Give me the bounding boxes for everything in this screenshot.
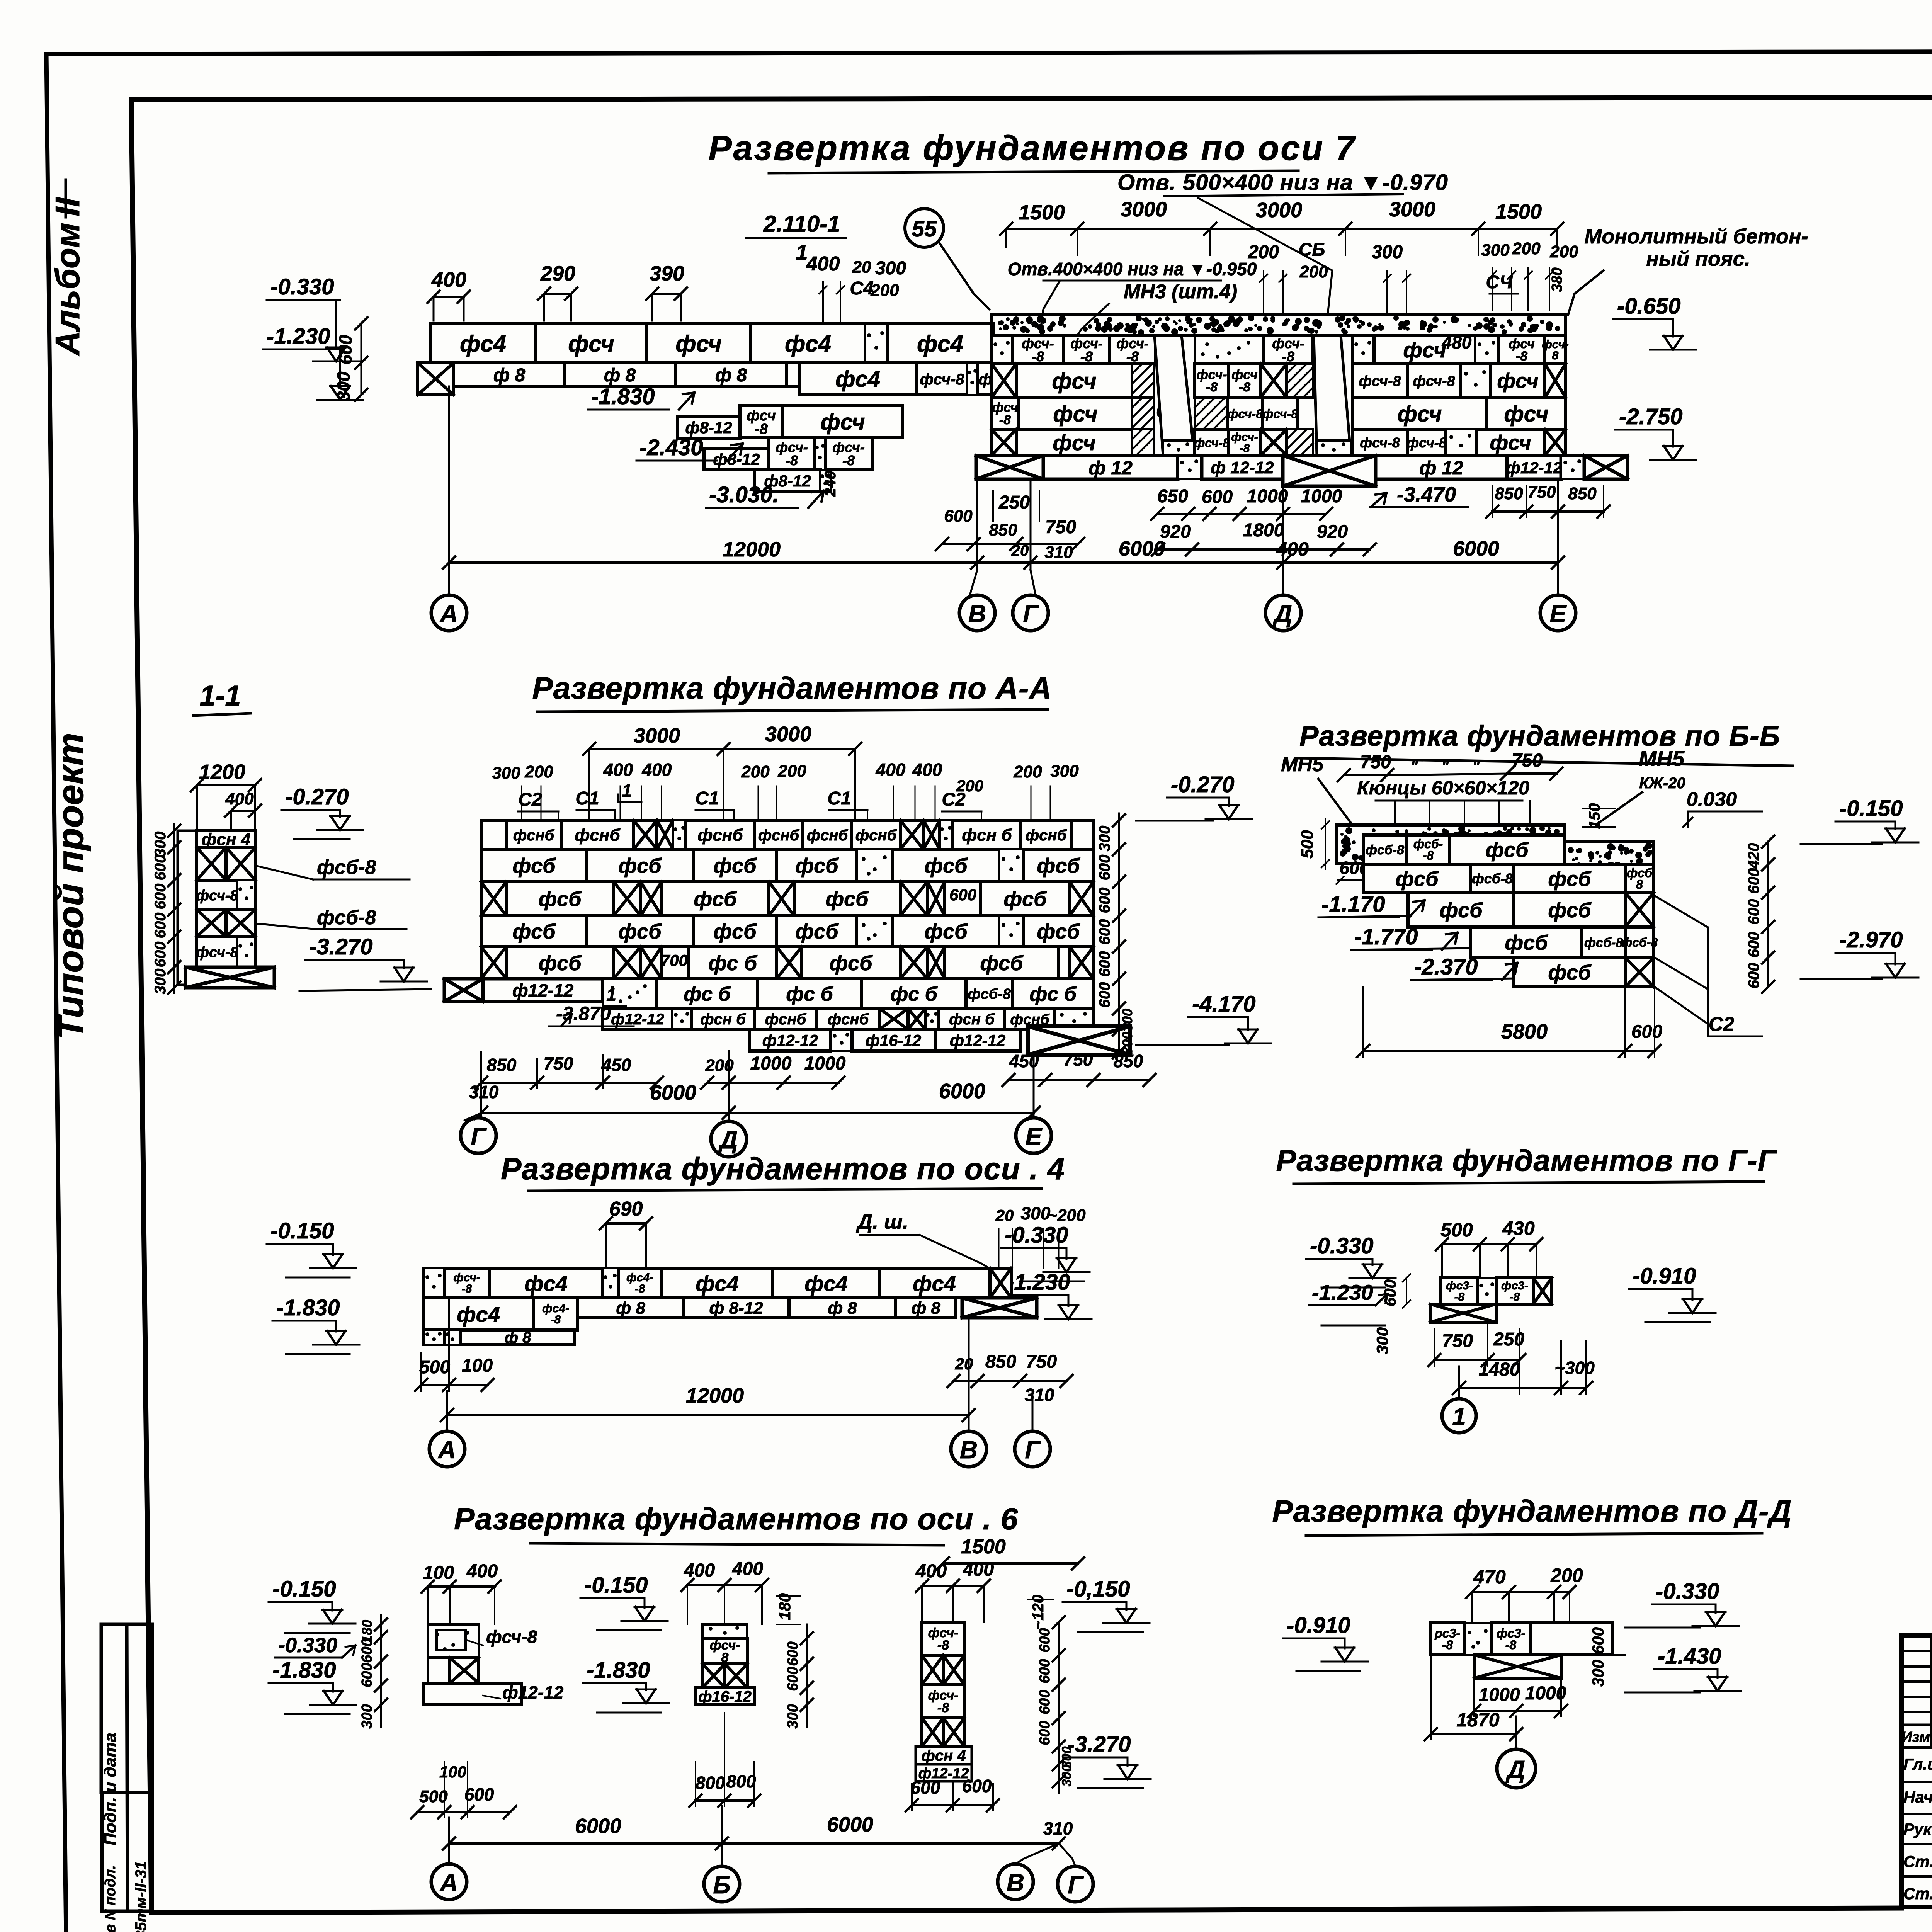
svg-text:850: 850 xyxy=(985,1352,1016,1372)
svg-text:-8: -8 xyxy=(1510,1291,1520,1303)
svg-text:750: 750 xyxy=(1045,517,1076,537)
svg-text:200: 200 xyxy=(1248,242,1279,262)
svg-text:470: 470 xyxy=(1473,1566,1506,1588)
drawing4 right vertical chain 420 600x4 xyxy=(1767,842,1769,987)
svg-text:-8: -8 xyxy=(842,452,855,468)
svg-text:300: 300 xyxy=(1050,762,1079,781)
svg-text:Отв.400×400 низ на ▼-0.950: Отв.400×400 низ на ▼-0.950 xyxy=(1008,259,1257,279)
svg-text:750: 750 xyxy=(1442,1331,1473,1351)
svg-text:Е: Е xyxy=(1550,600,1567,628)
svg-text:-3.470: -3.470 xyxy=(1397,483,1456,506)
svg-text:690: 690 xyxy=(609,1198,643,1220)
svg-text:850: 850 xyxy=(1114,1051,1143,1071)
svg-text:-1.230: -1.230 xyxy=(1007,1270,1070,1295)
svg-text:фсн б: фсн б xyxy=(962,826,1012,845)
svg-text:-0.330: -0.330 xyxy=(278,1634,337,1657)
svg-text:1000: 1000 xyxy=(1301,486,1342,507)
svg-text:200: 200 xyxy=(1299,262,1328,281)
svg-text:200: 200 xyxy=(1512,239,1541,258)
svg-text:А: А xyxy=(437,1436,456,1464)
svg-text:12000: 12000 xyxy=(686,1384,744,1407)
svg-text:фснб: фснб xyxy=(697,826,743,845)
svg-text:фсб: фсб xyxy=(713,854,757,878)
svg-text:-0.330: -0.330 xyxy=(1656,1579,1719,1604)
svg-text:8: 8 xyxy=(1636,878,1643,891)
svg-text:300: 300 xyxy=(1021,1203,1051,1223)
svg-text:фсч: фсч xyxy=(675,331,721,357)
svg-text:850: 850 xyxy=(1568,484,1597,503)
svg-text:1: 1 xyxy=(622,781,632,801)
svg-text:Ст.техн.: Ст.техн. xyxy=(1903,1884,1932,1903)
svg-text:ф12-12: ф12-12 xyxy=(1506,459,1562,477)
svg-text:100: 100 xyxy=(423,1563,454,1583)
drawing3 wall row8 base xyxy=(750,1029,831,1051)
svg-text:-1.230: -1.230 xyxy=(267,324,330,349)
svg-text:Развертка фундаментов по ос: Развертка фундаментов по оси . 6 xyxy=(454,1502,1018,1536)
svg-text:фснб: фснб xyxy=(765,1011,807,1028)
svg-text:6000: 6000 xyxy=(1453,537,1499,560)
svg-text:600: 600 xyxy=(1037,1721,1053,1745)
svg-text:500: 500 xyxy=(1298,830,1317,859)
svg-text:310: 310 xyxy=(1025,1385,1054,1405)
svg-text:6000: 6000 xyxy=(827,1813,873,1836)
svg-text:фснб: фснб xyxy=(575,826,621,845)
svg-text:фсб: фсб xyxy=(1037,920,1080,943)
svg-text:-8: -8 xyxy=(937,1701,949,1715)
svg-text:фсб: фсб xyxy=(980,952,1024,975)
svg-text:ф 8: ф 8 xyxy=(911,1299,940,1318)
svg-text:Инв N подл.: Инв N подл. xyxy=(102,1865,119,1932)
svg-text:фсч: фсч xyxy=(1403,338,1446,362)
svg-text:Развертка фундаментов по Б-Б: Развертка фундаментов по Б-Б xyxy=(1299,720,1780,752)
svg-text:Развертка фундаментов по ос: Развертка фундаментов по оси 7 xyxy=(709,129,1357,168)
svg-text:6000: 6000 xyxy=(939,1080,985,1103)
svg-text:300: 300 xyxy=(875,258,906,279)
svg-text:600: 600 xyxy=(152,913,169,939)
svg-text:500: 500 xyxy=(1440,1219,1473,1241)
svg-text:~200: ~200 xyxy=(1047,1206,1086,1225)
svg-text:фсб: фсб xyxy=(1003,888,1047,911)
svg-text:750: 750 xyxy=(1527,483,1556,502)
drawing1 staircase row3 xyxy=(677,417,740,438)
svg-text:3000: 3000 xyxy=(1121,198,1167,221)
svg-text:600: 600 xyxy=(1037,1628,1053,1652)
svg-text:1000: 1000 xyxy=(1247,486,1288,507)
drawing1 left vertical dims 600 300 xyxy=(361,323,362,395)
svg-text:фсч-8: фсч-8 xyxy=(1194,436,1230,450)
svg-text:": " xyxy=(1442,758,1449,775)
svg-text:СЧ: СЧ xyxy=(1486,272,1513,293)
svg-text:Типовой проект: Типовой проект xyxy=(50,733,91,1039)
svg-text:600: 600 xyxy=(944,507,973,526)
svg-text:ф 8: ф 8 xyxy=(505,1329,532,1346)
axis circle Д drawing9 xyxy=(1497,1749,1536,1788)
svg-text:МН5: МН5 xyxy=(1281,753,1324,776)
svg-text:200: 200 xyxy=(1550,1565,1583,1586)
svg-text:-1.830: -1.830 xyxy=(591,384,655,409)
svg-text:-8: -8 xyxy=(1239,380,1250,395)
svg-text:600: 600 xyxy=(335,335,355,364)
svg-text:300: 300 xyxy=(359,1704,375,1728)
svg-text:300: 300 xyxy=(1373,1327,1391,1354)
svg-text:-8: -8 xyxy=(635,1282,645,1295)
svg-text:100: 100 xyxy=(462,1355,493,1376)
svg-text:400: 400 xyxy=(431,268,466,291)
svg-text:1500: 1500 xyxy=(1495,200,1542,223)
svg-text:А: А xyxy=(439,600,458,628)
svg-text:420: 420 xyxy=(1745,843,1762,869)
svg-text:310: 310 xyxy=(1044,543,1073,562)
svg-text:С4: С4 xyxy=(850,278,873,299)
drawing4 concrete beam xyxy=(1337,825,1565,864)
svg-text:400: 400 xyxy=(915,1561,947,1582)
svg-text:20: 20 xyxy=(955,1355,973,1373)
svg-text:400: 400 xyxy=(876,760,906,780)
axis circle Г xyxy=(1013,595,1048,631)
svg-text:-2.750: -2.750 xyxy=(1619,404,1682,429)
svg-text:200: 200 xyxy=(1013,762,1042,781)
svg-text:600: 600 xyxy=(785,1641,801,1666)
svg-text:ф16-12: ф16-12 xyxy=(698,1688,752,1705)
svg-text:фсч: фсч xyxy=(1490,431,1531,454)
svg-text:МН3 (шт.4): МН3 (шт.4) xyxy=(1124,281,1237,303)
svg-text:-0.150: -0.150 xyxy=(272,1577,336,1602)
svg-text:фсч: фсч xyxy=(1497,369,1538,393)
svg-text:200: 200 xyxy=(524,762,553,781)
svg-text:-1.430: -1.430 xyxy=(1658,1644,1721,1669)
svg-text:С1: С1 xyxy=(827,788,851,809)
svg-text:фсч: фсч xyxy=(820,410,865,435)
svg-text:200: 200 xyxy=(870,281,899,300)
svg-text:1480: 1480 xyxy=(1479,1359,1520,1380)
svg-text:600: 600 xyxy=(1096,888,1113,913)
svg-text:-2.370: -2.370 xyxy=(1414,954,1478,980)
svg-text:Кюнцы 60×60×120: Кюнцы 60×60×120 xyxy=(1357,777,1529,799)
svg-text:фс4: фс4 xyxy=(457,1302,500,1327)
svg-text:200: 200 xyxy=(777,762,806,781)
svg-text:3000: 3000 xyxy=(1389,198,1435,221)
svg-text:600: 600 xyxy=(152,855,169,881)
svg-text:1870: 1870 xyxy=(1456,1709,1499,1731)
svg-text:5800: 5800 xyxy=(1501,1020,1548,1043)
svg-text:фсб: фсб xyxy=(538,952,582,975)
svg-text:фсб-8: фсб-8 xyxy=(1472,871,1513,886)
svg-text:0.030: 0.030 xyxy=(1687,788,1737,811)
svg-text:фсб: фсб xyxy=(713,920,757,943)
svg-text:-1.830: -1.830 xyxy=(272,1658,336,1683)
svg-text:600: 600 xyxy=(1096,951,1113,977)
svg-text:1000: 1000 xyxy=(750,1053,792,1074)
svg-text:400: 400 xyxy=(963,1560,994,1580)
svg-text:фс4: фс4 xyxy=(913,1271,956,1296)
svg-text:фсч-8: фсч-8 xyxy=(1360,435,1400,451)
svg-text:600: 600 xyxy=(1631,1022,1662,1042)
svg-text:фс4: фс4 xyxy=(524,1271,568,1296)
drawing9 block row xyxy=(1431,1623,1464,1655)
svg-text:фсб: фсб xyxy=(618,920,662,943)
svg-text:310: 310 xyxy=(469,1082,499,1102)
axis circle Д xyxy=(1265,595,1301,631)
title block outer box xyxy=(1901,1636,1932,1907)
svg-text:фсб: фсб xyxy=(618,854,662,878)
svg-text:ный пояс.: ный пояс. xyxy=(1646,247,1750,270)
svg-text:600: 600 xyxy=(1589,1627,1607,1654)
drawing1 axis drop lines xyxy=(448,386,450,595)
svg-text:А: А xyxy=(439,1869,458,1896)
svg-text:фсч-8: фсч-8 xyxy=(1413,373,1455,389)
drawing3 wall row5 xyxy=(481,947,506,979)
svg-text:Г: Г xyxy=(471,1122,487,1150)
svg-text:фсб: фсб xyxy=(1037,854,1080,878)
svg-text:Монолитный бетон-: Монолитный бетон- xyxy=(1584,225,1808,248)
svg-text:Д: Д xyxy=(1272,600,1292,628)
svg-text:фсн б: фсн б xyxy=(949,1011,995,1028)
svg-text:300: 300 xyxy=(492,764,520,782)
svg-text:фсб-8: фсб-8 xyxy=(1621,935,1658,949)
svg-text:фсч-8: фсч-8 xyxy=(196,944,238,961)
svg-text:фсч-8: фсч-8 xyxy=(1359,373,1401,389)
axis circles drawing8 xyxy=(431,1864,467,1900)
svg-text:1800: 1800 xyxy=(1243,520,1284,541)
svg-text:Рук. гр.: Рук. гр. xyxy=(1903,1820,1932,1838)
svg-text:-0.330: -0.330 xyxy=(270,274,334,299)
svg-text:фсб: фсб xyxy=(512,920,556,943)
svg-text:Развертка фундаментов по А-: Развертка фундаментов по А-А xyxy=(532,671,1052,705)
svg-text:300: 300 xyxy=(785,1704,801,1728)
svg-text:-8: -8 xyxy=(755,421,768,437)
svg-text:Г: Г xyxy=(1068,1871,1084,1899)
svg-text:-1.830: -1.830 xyxy=(276,1295,340,1320)
axis circles drawing6 xyxy=(429,1431,465,1467)
svg-text:ф12-12: ф12-12 xyxy=(762,1031,818,1049)
svg-text:-8: -8 xyxy=(786,452,798,468)
drawing4 wall rows xyxy=(1363,835,1406,864)
svg-text:фсб: фсб xyxy=(1505,931,1548,954)
svg-text:600: 600 xyxy=(1037,1659,1053,1683)
svg-text:600: 600 xyxy=(1381,1279,1399,1306)
svg-text:ф12-12: ф12-12 xyxy=(611,1011,664,1028)
svg-text:1000: 1000 xyxy=(1479,1685,1520,1705)
svg-text:фсб: фсб xyxy=(924,920,968,943)
drawing3 wall row1 ФСН6 xyxy=(481,820,506,849)
svg-text:600: 600 xyxy=(911,1777,940,1798)
drawing6 wall row3 xyxy=(423,1330,444,1345)
svg-text:фсб: фсб xyxy=(512,854,556,878)
svg-text:фс4: фс4 xyxy=(835,367,880,392)
svg-text:850: 850 xyxy=(1495,484,1523,503)
svg-text:фсч-8: фсч-8 xyxy=(920,371,965,388)
svg-text:300: 300 xyxy=(1060,1765,1074,1787)
svg-text:фсч: фсч xyxy=(1053,430,1095,455)
svg-text:Развертка фундаментов по Д-Д: Развертка фундаментов по Д-Д xyxy=(1272,1494,1792,1528)
svg-text:-2.430: -2.430 xyxy=(639,435,703,460)
svg-text:-4.170: -4.170 xyxy=(1192,992,1255,1017)
svg-text:-0.910: -0.910 xyxy=(1633,1264,1696,1289)
svg-text:фсч: фсч xyxy=(568,331,614,357)
svg-text:фснб: фснб xyxy=(1026,827,1067,844)
svg-text:-8: -8 xyxy=(1442,1638,1453,1652)
svg-text:380: 380 xyxy=(1549,267,1565,292)
drawing8 axis drop lines xyxy=(448,1818,450,1864)
svg-text:С1: С1 xyxy=(575,788,599,809)
svg-text:фсч-8: фсч-8 xyxy=(1227,407,1263,421)
svg-text:фсч-8: фсч-8 xyxy=(486,1627,537,1647)
axis circle А xyxy=(431,595,467,631)
svg-text:-0.650: -0.650 xyxy=(1617,294,1680,319)
drawing3 wall row3 xyxy=(481,882,506,916)
axis circle Е drawing3 xyxy=(1016,1118,1051,1153)
svg-text:фснб: фснб xyxy=(758,827,800,844)
svg-text:фсн б: фсн б xyxy=(700,1011,746,1028)
svg-text:310: 310 xyxy=(1043,1818,1073,1838)
svg-text:400: 400 xyxy=(732,1559,763,1579)
svg-text:фсб: фсб xyxy=(538,888,582,911)
svg-text:фснб: фснб xyxy=(855,827,897,844)
drawing7 blocks xyxy=(1441,1278,1478,1304)
drawing6 wall row1 xyxy=(423,1268,444,1298)
svg-text:600: 600 xyxy=(1096,982,1113,1008)
svg-text:20: 20 xyxy=(1011,542,1029,559)
svg-text:800: 800 xyxy=(726,1771,756,1791)
svg-text:750: 750 xyxy=(1026,1352,1057,1372)
drawing1 staircase row5 xyxy=(754,470,820,492)
svg-text:фснб: фснб xyxy=(513,827,555,844)
svg-text:фсн 4: фсн 4 xyxy=(921,1747,966,1764)
svg-text:-0.150: -0.150 xyxy=(1839,796,1903,821)
svg-text:фсб: фсб xyxy=(1548,961,1592,984)
svg-text:6000: 6000 xyxy=(650,1081,696,1104)
svg-text:Г: Г xyxy=(1025,1436,1041,1464)
svg-text:фсб: фсб xyxy=(694,888,737,911)
svg-text:-8: -8 xyxy=(1126,349,1139,364)
svg-text:В: В xyxy=(1007,1869,1024,1896)
svg-text:ф12-12: ф12-12 xyxy=(512,980,574,1000)
svg-text:1000: 1000 xyxy=(1525,1683,1566,1704)
svg-text:Изм: Изм xyxy=(1901,1729,1930,1745)
svg-text:ф 12: ф 12 xyxy=(1088,457,1133,479)
svg-text:фсб-8: фсб-8 xyxy=(1584,935,1623,950)
drawing1 central wall row2 xyxy=(992,364,1016,398)
svg-text:ф8-12: ф8-12 xyxy=(685,418,732,437)
svg-text:-8: -8 xyxy=(1206,380,1218,395)
svg-text:600: 600 xyxy=(359,1638,375,1663)
svg-text:400: 400 xyxy=(684,1560,715,1581)
svg-text:-0.330: -0.330 xyxy=(1310,1233,1373,1259)
svg-text:С2: С2 xyxy=(1709,1013,1735,1036)
svg-text:300: 300 xyxy=(152,832,169,857)
svg-text:ф12-12: ф12-12 xyxy=(502,1682,564,1702)
svg-text:1500: 1500 xyxy=(961,1536,1006,1558)
svg-text:300: 300 xyxy=(1372,242,1403,262)
svg-text:фс б: фс б xyxy=(684,983,731,1005)
svg-text:2.110-1: 2.110-1 xyxy=(763,211,840,237)
svg-text:фсб: фсб xyxy=(1548,899,1592,922)
svg-text:300: 300 xyxy=(1589,1660,1607,1687)
svg-text:20: 20 xyxy=(852,258,871,277)
svg-text:Д. ш.: Д. ш. xyxy=(856,1210,908,1233)
svg-text:фс б: фс б xyxy=(786,983,833,1005)
svg-text:фсб: фсб xyxy=(795,854,839,878)
drawing1 left wall row2 Ф8 strip xyxy=(418,363,454,395)
svg-text:1685тм-II-31: 1685тм-II-31 xyxy=(133,1861,150,1932)
svg-text:1-1: 1-1 xyxy=(200,680,241,712)
svg-text:ф 12: ф 12 xyxy=(1419,457,1463,479)
svg-text:КЖ-20: КЖ-20 xyxy=(1639,775,1685,792)
svg-text:фсч: фсч xyxy=(1053,401,1097,427)
svg-text:": " xyxy=(1473,758,1480,775)
svg-text:3000: 3000 xyxy=(765,723,811,746)
svg-text:Г: Г xyxy=(1023,600,1039,628)
section 1-1 block stack xyxy=(178,831,197,985)
drawing1 staircase row4 xyxy=(704,448,769,470)
svg-text:-8: -8 xyxy=(551,1313,561,1326)
svg-text:180: 180 xyxy=(776,1593,794,1620)
svg-text:ф 8-12: ф 8-12 xyxy=(709,1299,763,1318)
drawing1 left wall row1 ФС4 blocks xyxy=(430,323,536,363)
drawing1 central wall: top dim chain 1500 3000 3000 3000 1500 xyxy=(1006,228,1557,230)
svg-text:600: 600 xyxy=(1096,855,1113,881)
svg-text:600: 600 xyxy=(1037,1690,1053,1714)
svg-text:1: 1 xyxy=(1452,1403,1466,1430)
svg-text:фсч-8: фсч-8 xyxy=(1262,407,1298,421)
svg-text:фсч-8: фсч-8 xyxy=(196,888,238,904)
svg-text:750: 750 xyxy=(544,1053,573,1073)
svg-text:1500: 1500 xyxy=(1019,201,1065,224)
drawing3 right vertical chain xyxy=(1118,813,1120,1052)
svg-text:750: 750 xyxy=(1512,750,1543,771)
svg-text:-0.270: -0.270 xyxy=(285,784,349,810)
svg-text:-1.770: -1.770 xyxy=(1354,924,1418,949)
svg-text:300: 300 xyxy=(152,969,169,995)
drawing3 wall row2 ФСБ xyxy=(481,849,587,882)
svg-text:фс4: фс4 xyxy=(696,1271,739,1296)
svg-text:290: 290 xyxy=(540,262,575,285)
svg-text:650: 650 xyxy=(1157,486,1188,507)
svg-text:-0.910: -0.910 xyxy=(1287,1613,1350,1638)
svg-text:450: 450 xyxy=(601,1055,631,1075)
svg-text:Гл.инж.т: Гл.инж.т xyxy=(1903,1755,1932,1773)
svg-text:12000: 12000 xyxy=(723,538,781,561)
svg-text:-8: -8 xyxy=(1240,442,1250,455)
svg-text:20: 20 xyxy=(995,1206,1014,1225)
svg-text:-8: -8 xyxy=(999,413,1011,427)
svg-text:фснб: фснб xyxy=(807,827,849,844)
svg-text:-8: -8 xyxy=(937,1638,949,1653)
svg-text:400: 400 xyxy=(225,789,254,808)
svg-text:1200: 1200 xyxy=(199,760,245,784)
axis circle Е xyxy=(1540,595,1576,631)
svg-text:-0.270: -0.270 xyxy=(1171,772,1234,797)
svg-text:Отв. 500×400 низ на ▼-0.970: Отв. 500×400 низ на ▼-0.970 xyxy=(1117,170,1448,195)
svg-text:700: 700 xyxy=(661,951,688,969)
axis circle Г drawing3 xyxy=(461,1118,496,1153)
drawing4 право bracket С2 xyxy=(1656,896,1708,927)
svg-text:фсб: фсб xyxy=(795,920,839,943)
svg-text:300: 300 xyxy=(1119,1009,1135,1032)
svg-text:С1: С1 xyxy=(695,788,719,809)
svg-text:850: 850 xyxy=(989,520,1017,539)
svg-text:фсб-8: фсб-8 xyxy=(968,986,1011,1002)
svg-text:200: 200 xyxy=(1549,242,1578,261)
svg-text:фсб: фсб xyxy=(825,888,869,911)
svg-text:Д: Д xyxy=(1505,1755,1525,1783)
axis circle 1 drawing7 xyxy=(1442,1399,1476,1433)
svg-text:-3.270: -3.270 xyxy=(309,934,372,959)
svg-text:3000: 3000 xyxy=(1256,199,1302,222)
svg-text:-8: -8 xyxy=(1516,349,1527,364)
drawing8 pier В blocks xyxy=(922,1622,964,1655)
svg-text:600: 600 xyxy=(1745,899,1762,925)
